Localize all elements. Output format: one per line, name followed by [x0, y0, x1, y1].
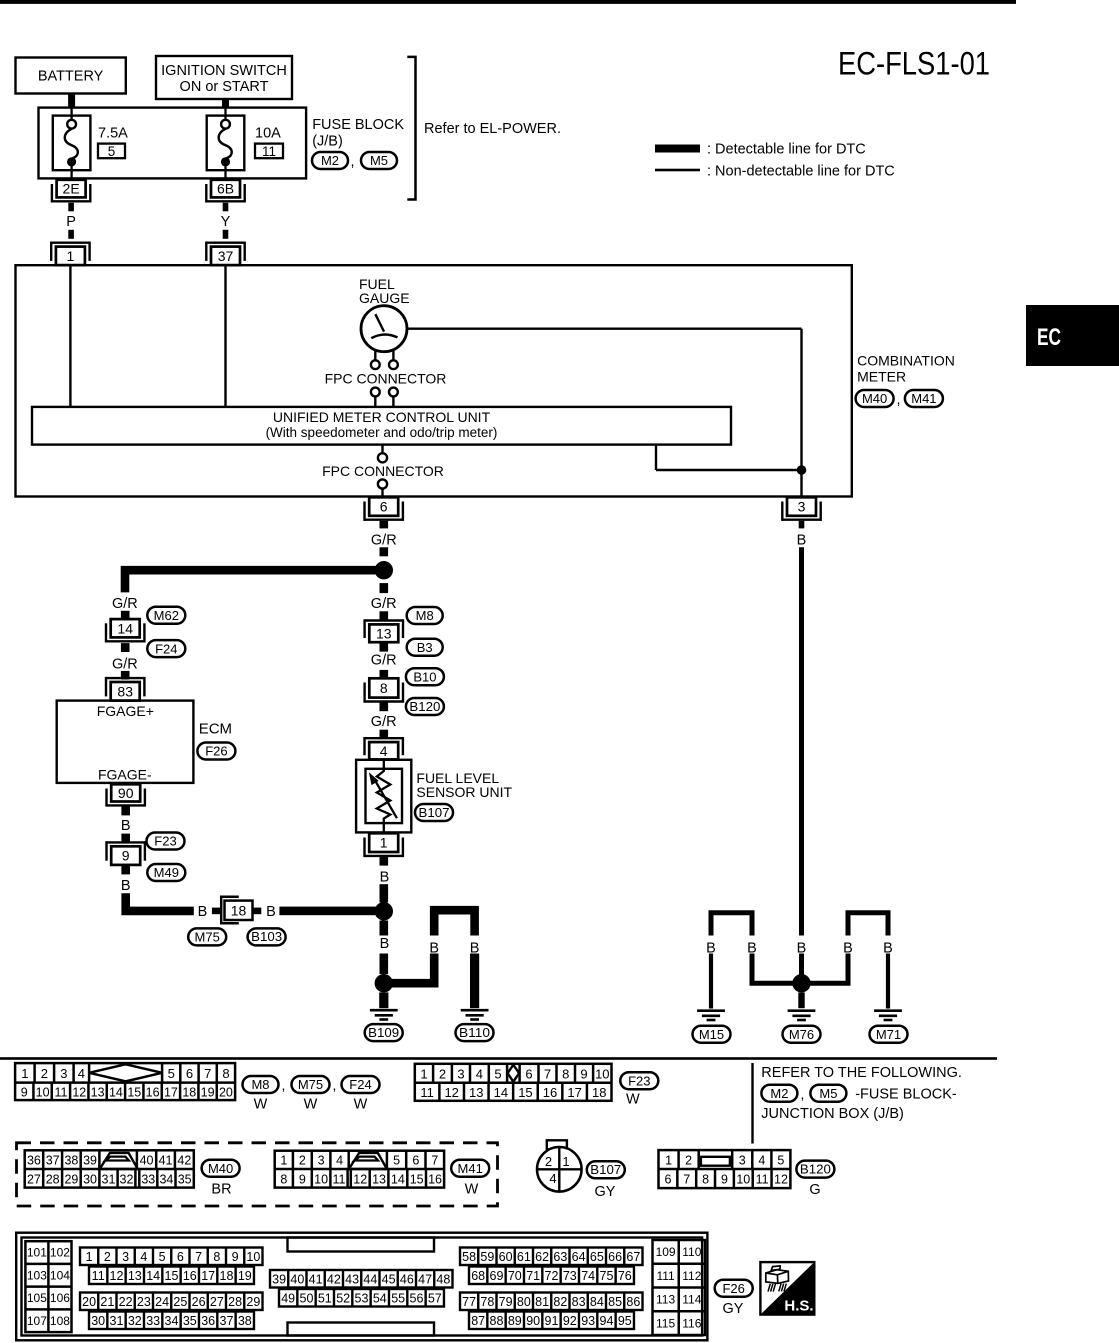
svg-text:10: 10	[246, 1250, 260, 1264]
wire M71 ground drop	[886, 954, 890, 1009]
svg-text:ECM: ECM	[199, 721, 232, 738]
svg-text:5: 5	[393, 1153, 400, 1167]
svg-text:3: 3	[739, 1153, 746, 1167]
svg-text:13: 13	[372, 1172, 386, 1186]
svg-text:13: 13	[128, 1269, 142, 1283]
svg-text:P: P	[66, 214, 76, 230]
svg-text:27: 27	[210, 1295, 224, 1309]
svg-text:2: 2	[104, 1250, 111, 1264]
wire pin37 to unified meter control unit	[224, 265, 226, 407]
svg-text:M2: M2	[321, 153, 339, 168]
svg-text:38: 38	[238, 1314, 252, 1328]
svg-text:6: 6	[177, 1250, 184, 1264]
wire G/R stub below trunk junction	[380, 583, 389, 593]
svg-text:3: 3	[60, 1066, 67, 1081]
svg-text:37: 37	[46, 1153, 60, 1167]
connector label M41 face	[451, 1160, 489, 1177]
svg-text:86: 86	[626, 1295, 640, 1309]
svg-text:IGNITION SWITCH: IGNITION SWITCH	[161, 63, 287, 79]
svg-text:80: 80	[517, 1295, 531, 1309]
svg-text:8: 8	[213, 1250, 220, 1264]
svg-text:M8: M8	[416, 608, 434, 623]
svg-text:7: 7	[683, 1173, 690, 1187]
svg-text:89: 89	[508, 1314, 522, 1328]
svg-text:,: ,	[350, 154, 354, 170]
svg-text:FGAGE-: FGAGE-	[98, 767, 152, 783]
svg-text:59: 59	[480, 1250, 494, 1264]
dashed box combination meter faces	[17, 1143, 498, 1206]
svg-text:8: 8	[280, 1172, 287, 1186]
svg-text:B: B	[266, 904, 276, 920]
svg-text:93: 93	[581, 1314, 595, 1328]
combination meter box	[16, 265, 852, 496]
svg-text:19: 19	[238, 1269, 252, 1283]
svg-text:6: 6	[664, 1173, 671, 1187]
connector face M40	[25, 1150, 194, 1187]
svg-text:COMBINATION: COMBINATION	[857, 353, 955, 369]
svg-text:M71: M71	[876, 1027, 901, 1042]
svg-text:M75: M75	[195, 930, 220, 945]
svg-text:9: 9	[580, 1066, 587, 1081]
svg-text:F24: F24	[155, 641, 177, 656]
connector label M49	[147, 864, 185, 881]
svg-text:34: 34	[165, 1314, 179, 1328]
fuel gauge meter symbol	[361, 306, 407, 352]
wire G/R stub above connector 13	[380, 611, 389, 620]
wire G/R trunk horizontal and left drop	[125, 570, 384, 592]
svg-text:109: 109	[656, 1245, 676, 1259]
svg-text:28: 28	[46, 1172, 60, 1186]
wire B from connector 18 to junction	[279, 907, 383, 916]
connector 3 at combination meter	[787, 497, 816, 516]
svg-text:101: 101	[27, 1246, 47, 1260]
svg-text:B: B	[797, 532, 807, 548]
svg-text:14: 14	[146, 1269, 160, 1283]
wire G/R stub above connector 4	[380, 730, 389, 739]
svg-text:38: 38	[64, 1153, 78, 1167]
svg-text:31: 31	[110, 1314, 124, 1328]
FPC terminal circle above pin 6	[378, 479, 387, 488]
svg-text:M62: M62	[154, 608, 179, 623]
svg-text:9: 9	[721, 1173, 728, 1187]
svg-text:40: 40	[290, 1272, 304, 1286]
svg-text:G/R: G/R	[112, 656, 138, 672]
connector label M2 bottom	[761, 1085, 797, 1102]
svg-text:BATTERY: BATTERY	[38, 69, 104, 85]
ECM face grid 39-48	[270, 1270, 453, 1288]
ECM face grid 20-29	[80, 1293, 263, 1311]
connector 8	[369, 678, 398, 697]
svg-text:7: 7	[431, 1153, 438, 1167]
svg-text:FPC CONNECTOR: FPC CONNECTOR	[325, 371, 447, 387]
connector label F26 face	[715, 1280, 753, 1297]
svg-text:61: 61	[517, 1250, 531, 1264]
svg-text:13: 13	[376, 625, 392, 641]
ECM connector face inner box	[22, 1238, 703, 1336]
svg-text:94: 94	[600, 1314, 614, 1328]
svg-text:BR: BR	[211, 1182, 231, 1198]
svg-text:54: 54	[373, 1291, 387, 1305]
svg-text:10: 10	[36, 1085, 50, 1099]
svg-text:W: W	[304, 1097, 318, 1113]
FPC terminal circles upper	[371, 360, 380, 369]
svg-text:78: 78	[480, 1295, 494, 1309]
connector label M62	[147, 607, 185, 624]
svg-text:44: 44	[363, 1272, 377, 1286]
connector label M41	[905, 390, 943, 407]
svg-text:13: 13	[91, 1085, 105, 1099]
svg-text:15: 15	[410, 1172, 424, 1186]
svg-text:40: 40	[140, 1153, 154, 1167]
wire unified unit to FPC lower	[381, 445, 383, 454]
EC section tab	[1026, 305, 1119, 366]
svg-text:B10: B10	[413, 669, 436, 684]
svg-text:30: 30	[91, 1314, 105, 1328]
wire G/R stub above connector 8	[380, 670, 389, 678]
svg-text:84: 84	[590, 1295, 604, 1309]
svg-text:12: 12	[353, 1172, 367, 1186]
svg-text:76: 76	[618, 1269, 632, 1283]
ground M71	[874, 1009, 902, 1012]
fuel level sensor unit inner box	[366, 769, 403, 823]
svg-text:114: 114	[682, 1293, 701, 1307]
connector face B120	[659, 1150, 791, 1188]
svg-text:43: 43	[345, 1272, 359, 1286]
svg-text:14: 14	[391, 1172, 405, 1186]
svg-text:16: 16	[146, 1085, 160, 1099]
svg-text:33: 33	[141, 1172, 155, 1186]
svg-text:17: 17	[201, 1269, 215, 1283]
svg-text:: Detectable line for DTC: : Detectable line for DTC	[707, 142, 866, 158]
wire M76 ground drop	[798, 992, 804, 1008]
junction inside combination meter	[797, 465, 807, 475]
connector 14	[111, 619, 140, 637]
svg-text:M40: M40	[862, 391, 887, 406]
connector 83 ECM	[111, 682, 140, 701]
connector label M5 bottom	[810, 1085, 846, 1102]
svg-text:G/R: G/R	[371, 714, 397, 730]
svg-text:W: W	[254, 1097, 268, 1113]
wire battery to fuse block	[68, 94, 75, 108]
svg-text:F23: F23	[628, 1073, 650, 1088]
svg-text:91: 91	[545, 1314, 559, 1328]
refer bracket	[407, 57, 415, 200]
connector label F23 face	[620, 1072, 658, 1089]
svg-text:16: 16	[428, 1172, 442, 1186]
svg-text:Y: Y	[221, 214, 231, 230]
FPC terminal circles lower	[371, 388, 380, 397]
svg-text:11: 11	[92, 1269, 105, 1283]
wire P stub upper	[68, 203, 74, 212]
svg-text:12: 12	[444, 1085, 458, 1100]
wire G/R stub below connector 8	[380, 702, 389, 711]
svg-text:4: 4	[78, 1066, 85, 1081]
svg-text:58: 58	[462, 1250, 476, 1264]
svg-text:B120: B120	[800, 1162, 831, 1176]
svg-text:EC-FLS1-01: EC-FLS1-01	[838, 46, 990, 82]
connector face B107 round	[547, 1140, 567, 1149]
wire M71 loop left leg to junction 4	[802, 954, 849, 984]
svg-text:M76: M76	[789, 1027, 814, 1042]
svg-text:41: 41	[309, 1272, 323, 1286]
svg-text:6: 6	[412, 1153, 419, 1167]
connector label M75	[188, 928, 226, 945]
svg-text:2E: 2E	[63, 181, 80, 197]
svg-text:81: 81	[535, 1295, 549, 1309]
svg-text:11: 11	[333, 1172, 346, 1186]
svg-text:19: 19	[201, 1085, 215, 1099]
svg-text:B109: B109	[368, 1026, 399, 1040]
svg-text:M41: M41	[458, 1161, 483, 1176]
ECM face notch bottom	[288, 1323, 435, 1336]
svg-text:85: 85	[608, 1295, 622, 1309]
wire B stub left of connector 18	[212, 908, 220, 915]
svg-text:29: 29	[64, 1172, 78, 1186]
left ground loop M15	[711, 913, 752, 936]
svg-text:6: 6	[186, 1066, 193, 1081]
svg-text:4: 4	[476, 1066, 483, 1081]
svg-text:15: 15	[165, 1269, 179, 1283]
svg-text:: Non-detectable line for DTC: : Non-detectable line for DTC	[707, 164, 895, 180]
svg-text:(With speedometer and odo/trip: (With speedometer and odo/trip meter)	[266, 425, 498, 440]
svg-text:4: 4	[336, 1153, 343, 1167]
svg-text:1: 1	[280, 1153, 287, 1167]
svg-text:25: 25	[173, 1295, 187, 1309]
svg-text:1: 1	[380, 835, 388, 851]
svg-text:52: 52	[336, 1291, 350, 1305]
svg-text:103: 103	[27, 1268, 47, 1282]
fuel level sensor variable resistor	[377, 759, 391, 833]
svg-text:16: 16	[543, 1085, 557, 1100]
svg-text:1: 1	[86, 1250, 93, 1264]
svg-text:26: 26	[192, 1295, 206, 1309]
svg-text:6: 6	[525, 1066, 532, 1081]
svg-text:77: 77	[462, 1295, 476, 1309]
svg-text:M5: M5	[819, 1086, 837, 1101]
connector 1 into combination meter	[56, 247, 85, 266]
ground B109	[370, 1009, 398, 1012]
svg-text:10: 10	[595, 1066, 609, 1081]
ignition switch box	[156, 56, 292, 99]
svg-text:50: 50	[300, 1291, 314, 1305]
svg-text:F23: F23	[154, 834, 176, 849]
svg-text:35: 35	[178, 1172, 192, 1186]
svg-text:39: 39	[83, 1153, 97, 1167]
svg-text:FGAGE+: FGAGE+	[97, 703, 154, 719]
svg-text:2: 2	[685, 1153, 692, 1167]
connector label B120 face	[796, 1161, 834, 1178]
connector label M76	[783, 1026, 821, 1043]
connector 4 fuel level sensor	[369, 742, 398, 759]
connector label M8 face	[243, 1076, 279, 1093]
svg-text:GY: GY	[595, 1184, 616, 1200]
svg-text:6B: 6B	[217, 181, 234, 197]
svg-text:57: 57	[428, 1291, 442, 1305]
svg-text:1: 1	[665, 1153, 672, 1167]
fuse 10A no.11	[207, 116, 245, 171]
svg-text:B: B	[429, 941, 439, 957]
svg-text:102: 102	[50, 1246, 70, 1260]
connector label B109	[365, 1024, 403, 1041]
svg-text:95: 95	[618, 1314, 632, 1328]
wire Y stub lower	[223, 230, 229, 239]
svg-text:13: 13	[469, 1085, 483, 1100]
svg-text:7: 7	[204, 1066, 211, 1081]
svg-text:115: 115	[656, 1316, 675, 1330]
svg-text:36: 36	[27, 1153, 41, 1167]
FPC terminal circle below unit	[378, 453, 387, 462]
legend detectable line sample	[655, 145, 700, 153]
svg-text:G: G	[809, 1182, 820, 1198]
ground M15	[697, 1009, 725, 1012]
svg-text:47: 47	[418, 1272, 432, 1286]
svg-text:62: 62	[535, 1250, 549, 1264]
svg-text:53: 53	[355, 1291, 369, 1305]
separator rule	[0, 1057, 997, 1060]
fuse block J/B box	[39, 108, 307, 179]
unified meter control unit box	[32, 407, 731, 445]
svg-text:75: 75	[600, 1269, 614, 1283]
svg-text:108: 108	[50, 1314, 70, 1328]
svg-text:45: 45	[382, 1272, 396, 1286]
svg-text:18: 18	[220, 1269, 234, 1283]
svg-text:5: 5	[168, 1066, 175, 1081]
ECM face grid 30-38	[89, 1312, 254, 1330]
svg-text:31: 31	[102, 1172, 116, 1186]
svg-text:90: 90	[526, 1314, 540, 1328]
svg-text:32: 32	[128, 1314, 142, 1328]
svg-text:14: 14	[494, 1085, 508, 1100]
svg-text:9: 9	[232, 1250, 239, 1264]
svg-text:8: 8	[562, 1066, 569, 1081]
svg-text:20: 20	[219, 1085, 233, 1099]
svg-text:G/R: G/R	[371, 532, 397, 548]
svg-text:87: 87	[471, 1314, 485, 1328]
wire G/R stub above connector 83	[121, 671, 130, 680]
wire B stub above connector 9	[121, 834, 130, 843]
junction B mid	[375, 902, 393, 920]
connector 6B	[211, 180, 240, 198]
svg-text:9: 9	[299, 1172, 306, 1186]
wire B stub above junction 2	[380, 884, 389, 902]
svg-text:88: 88	[490, 1314, 504, 1328]
connector label M75 face	[292, 1076, 330, 1093]
svg-text:11: 11	[756, 1173, 769, 1187]
ground B110	[461, 1009, 489, 1012]
fuse 7.5A no.5	[53, 116, 91, 171]
svg-text:4: 4	[549, 1171, 556, 1186]
svg-text:GAUGE: GAUGE	[359, 290, 410, 306]
svg-text:1: 1	[420, 1066, 427, 1081]
wire unified unit to junction	[655, 445, 657, 470]
junction G/R trunk	[375, 561, 393, 579]
svg-text:18: 18	[592, 1085, 606, 1100]
wire branch to B110 ground	[384, 954, 434, 984]
svg-text:,: ,	[896, 392, 900, 408]
svg-text:63: 63	[553, 1250, 567, 1264]
svg-text:METER: METER	[857, 369, 906, 385]
svg-text:65: 65	[590, 1250, 604, 1264]
svg-text:56: 56	[410, 1291, 424, 1305]
svg-text:28: 28	[228, 1295, 242, 1309]
svg-text:66: 66	[608, 1250, 622, 1264]
svg-text:FPC CONNECTOR: FPC CONNECTOR	[322, 463, 444, 479]
wire ignition switch to fuse block	[222, 99, 229, 108]
svg-text:42: 42	[327, 1272, 341, 1286]
svg-text:B103: B103	[251, 930, 282, 944]
svg-text:71: 71	[526, 1269, 540, 1283]
svg-text:8: 8	[380, 680, 388, 696]
svg-text:106: 106	[50, 1291, 70, 1305]
connector label M40 face	[202, 1160, 240, 1177]
svg-text:4: 4	[380, 743, 388, 759]
svg-text:M2: M2	[770, 1086, 788, 1101]
battery box	[16, 58, 126, 94]
svg-text:4: 4	[140, 1250, 147, 1264]
ECM connector face outer box	[16, 1233, 707, 1341]
svg-text:23: 23	[137, 1295, 151, 1309]
wire M15 loop right leg to junction 4	[752, 954, 802, 984]
ECM face grid 58-67	[460, 1248, 643, 1266]
svg-text:30: 30	[83, 1172, 97, 1186]
legend non-detectable line sample	[655, 169, 700, 172]
svg-text:W: W	[465, 1182, 479, 1198]
wire B stub below connector 9	[121, 866, 130, 874]
svg-text:4: 4	[758, 1153, 765, 1167]
connector label B107 face	[587, 1161, 625, 1178]
connector label B107	[415, 804, 453, 821]
svg-text:,: ,	[333, 1077, 337, 1093]
svg-text:70: 70	[508, 1269, 522, 1283]
connector label M71	[870, 1026, 908, 1043]
svg-text:,: ,	[801, 1086, 805, 1102]
svg-text:3: 3	[122, 1250, 129, 1264]
svg-text:35: 35	[183, 1314, 197, 1328]
svg-text:2: 2	[41, 1066, 48, 1081]
svg-text:M8: M8	[251, 1077, 269, 1092]
svg-text:Refer to EL-POWER.: Refer to EL-POWER.	[424, 121, 561, 137]
svg-text:-FUSE BLOCK-: -FUSE BLOCK-	[855, 1086, 957, 1102]
top rule bar	[0, 0, 1016, 4]
svg-text:32: 32	[120, 1172, 134, 1186]
wire B stub right of connector 18	[253, 908, 262, 915]
svg-text:1: 1	[67, 248, 75, 264]
svg-text:SENSOR UNIT: SENSOR UNIT	[416, 784, 512, 800]
svg-text:83: 83	[572, 1295, 586, 1309]
svg-text:15: 15	[127, 1085, 141, 1099]
svg-text:2: 2	[545, 1154, 552, 1169]
svg-text:2: 2	[299, 1153, 306, 1167]
svg-text:9: 9	[122, 848, 130, 864]
wire B stub below pin 3	[799, 521, 805, 529]
svg-text:M49: M49	[154, 865, 179, 880]
svg-text:105: 105	[27, 1291, 47, 1305]
svg-text:34: 34	[159, 1172, 173, 1186]
ECM face grid 77-86	[460, 1293, 643, 1311]
svg-text:37: 37	[218, 248, 234, 264]
ECM face grid 68-76	[469, 1267, 634, 1285]
svg-text:113: 113	[656, 1293, 675, 1307]
svg-text:7: 7	[195, 1250, 202, 1264]
svg-text:M15: M15	[699, 1027, 724, 1042]
svg-text:3: 3	[457, 1066, 464, 1081]
svg-text:12: 12	[72, 1085, 86, 1099]
connector 90 ECM	[111, 784, 140, 801]
svg-text:41: 41	[159, 1153, 173, 1167]
svg-text:36: 36	[201, 1314, 215, 1328]
svg-text:M41: M41	[911, 391, 936, 406]
svg-text:69: 69	[490, 1269, 504, 1283]
